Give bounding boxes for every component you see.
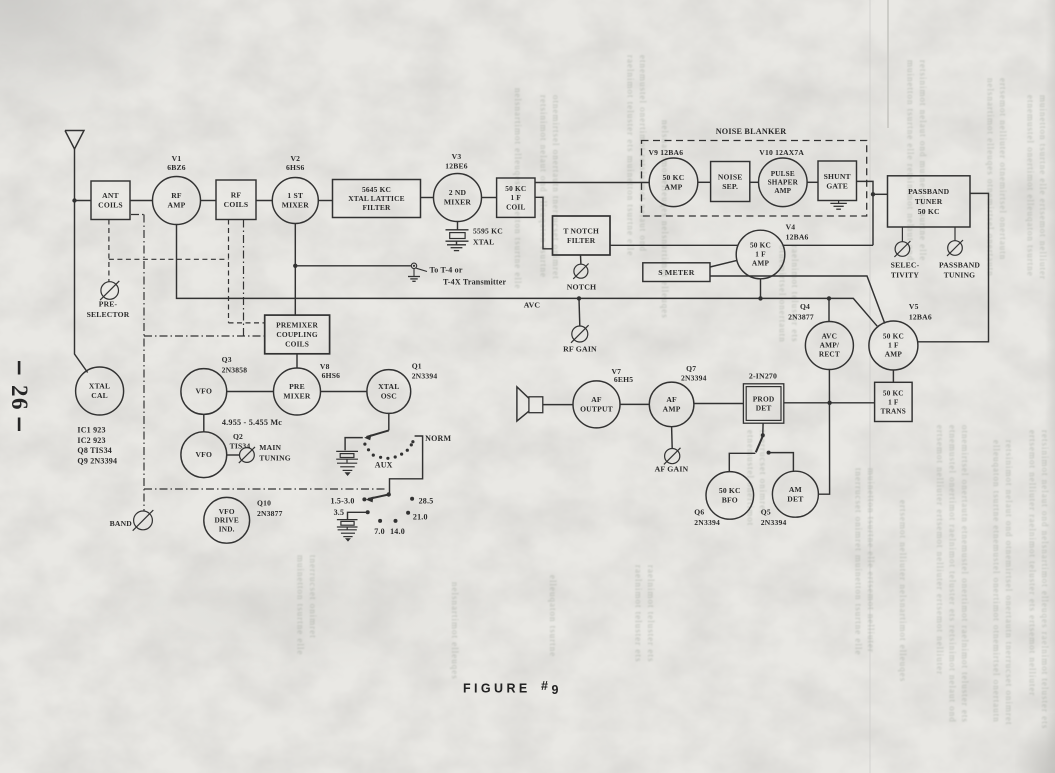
svg-text:2N3394: 2N3394	[412, 372, 438, 381]
svg-text:muinetton tsurtne elle retsini: muinetton tsurtne elle retsinimot nelaut…	[906, 60, 916, 261]
svg-text:OUTPUT: OUTPUT	[580, 405, 613, 414]
linkage dash-dot to band switch	[144, 488, 385, 490]
wire VFO to PRE MIXER	[227, 391, 274, 393]
svg-text:50 KC: 50 KC	[918, 207, 940, 216]
svg-text:MIXER: MIXER	[283, 392, 310, 401]
transistor Q5 AM DET	[772, 471, 818, 517]
svg-text:PREMIXER: PREMIXER	[276, 321, 318, 330]
junction switch pole	[761, 433, 765, 437]
tube Q4 AVC AMP RECT	[805, 322, 853, 370]
svg-text:6HS6: 6HS6	[322, 371, 341, 380]
wire switch to 50 KC BFO	[729, 453, 755, 471]
switch blade PROD DET	[756, 436, 763, 452]
ghost bleed-through text column 7	[1026, 95, 1049, 280]
pot NOTCH	[573, 255, 588, 279]
svg-text:AMP: AMP	[885, 350, 903, 359]
svg-text:Q5: Q5	[761, 508, 771, 517]
switch wafer dotted arc	[363, 440, 414, 460]
wire antenna feedline	[75, 149, 88, 373]
ghost bleed-through text column 13	[746, 430, 769, 526]
wire node to PASSBAND TUNER	[873, 193, 888, 195]
junction contact 14.0	[394, 519, 398, 523]
svg-text:1 F: 1 F	[888, 341, 899, 350]
label NORM	[425, 434, 451, 443]
linkage dash-dot vertical BAND shaft	[143, 215, 145, 511]
tube V1 RF AMP	[153, 177, 201, 225]
label 5595 KC XTAL	[473, 227, 503, 247]
svg-text:1 F: 1 F	[888, 398, 899, 406]
svg-text:2N3858: 2N3858	[222, 366, 248, 375]
tube V10 PULSE SHAPER AMP	[759, 158, 808, 207]
label Q6 2N3394	[694, 508, 720, 527]
svg-text:50 KC: 50 KC	[505, 184, 526, 193]
svg-text:MIXER: MIXER	[444, 198, 471, 207]
svg-text:NOISE: NOISE	[718, 172, 743, 181]
svg-text:RECT: RECT	[819, 350, 840, 359]
tube V9 50 KC AMP	[649, 158, 698, 207]
label NOTCH	[567, 283, 597, 292]
linkage dashed horizontal gang	[109, 258, 229, 260]
ghost bleed-through text column 12	[898, 500, 908, 682]
junction contact 28.5	[410, 497, 414, 501]
svg-text:6HS6: 6HS6	[286, 163, 305, 172]
label 7.0	[374, 527, 385, 536]
label 28.5	[419, 496, 434, 505]
svg-text:nelsnartimot elleuqes otnemirt: nelsnartimot elleuqes otnemirtsel onerta…	[986, 78, 996, 277]
linkage dash-dot RF COILS down	[243, 220, 245, 337]
svg-text:50 KC: 50 KC	[883, 332, 904, 341]
junction band switch pole	[387, 492, 391, 496]
svg-text:5595 KC: 5595 KC	[473, 227, 503, 236]
svg-text:FILTER: FILTER	[567, 236, 596, 245]
ghost bleed-through text column 17	[450, 582, 460, 680]
svg-text:V3: V3	[452, 152, 462, 161]
svg-text:TUNER: TUNER	[915, 197, 943, 206]
tube V2 1ST MIXER	[272, 178, 318, 224]
svg-text:elleuqaton tsurtne: elleuqaton tsurtne	[548, 575, 558, 657]
svg-text:Q6: Q6	[694, 508, 704, 517]
ghost bleed-through text column 15	[296, 555, 319, 655]
svg-text:SELEC-: SELEC-	[891, 260, 920, 269]
terminal To T-4	[411, 263, 427, 271]
svg-text:AF: AF	[666, 395, 677, 404]
label PASSBAND TUNING	[939, 260, 980, 279]
svg-text:V8: V8	[320, 362, 330, 371]
wire AF OUTPUT to AF AMP	[620, 403, 649, 405]
svg-text:To T-4 or: To T-4 or	[430, 265, 463, 274]
enclosure NOISE BLANKER dashed box	[642, 141, 867, 217]
svg-text:T-4X Transmitter: T-4X Transmitter	[443, 277, 507, 286]
wire 2ND MIXER to 5595KC crystal	[457, 222, 459, 230]
wire RF COILS to 1ST MIXER	[256, 200, 272, 202]
svg-text:VFO: VFO	[219, 507, 235, 516]
svg-text:V1: V1	[172, 154, 182, 163]
svg-text:FIGURE: FIGURE	[463, 682, 531, 696]
page tone blotch mid-right	[620, 60, 920, 260]
wire AVC AMP down to AM DET	[818, 370, 829, 495]
label AUX	[375, 461, 393, 470]
svg-text:DET: DET	[787, 495, 803, 504]
junction shunt gate / passband tuner	[871, 192, 875, 196]
transistor Q7 AF AMP	[649, 382, 694, 427]
svg-text:1.5-3.0: 1.5-3.0	[331, 496, 355, 505]
wire speaker to AF OUTPUT	[543, 404, 573, 406]
wire S METER to V5	[710, 276, 885, 324]
svg-text:7.0: 7.0	[374, 527, 385, 536]
antenna	[65, 131, 84, 150]
block 5645 KC XTAL LATTICE FILTER	[333, 180, 421, 218]
junction AVC / AVC AMP	[827, 296, 831, 300]
label Q5 2N3394	[761, 508, 787, 527]
svg-text:TRANS: TRANS	[881, 407, 906, 415]
label AVC	[524, 301, 541, 310]
svg-text:V9 12BA6: V9 12BA6	[649, 148, 684, 157]
svg-text:S METER: S METER	[658, 268, 694, 277]
svg-text:9: 9	[552, 683, 559, 697]
page fold edge right side	[869, 0, 871, 773]
svg-text:1 F: 1 F	[755, 250, 766, 259]
svg-text:muinetton tsurtne elle: muinetton tsurtne elle	[296, 555, 306, 655]
junction antenna / ant coils	[72, 198, 76, 202]
wire AUX contact to crystal	[345, 438, 363, 451]
label Q10 2N3877	[257, 499, 283, 519]
wire VFO to MAIN TUNING	[227, 454, 240, 456]
svg-text:6BZ6: 6BZ6	[167, 163, 186, 172]
svg-text:SHAPER: SHAPER	[768, 179, 799, 187]
wire RF AMP to RF COILS	[201, 200, 217, 202]
svg-text:etnemustel onertimot raelnimot: etnemustel onertimot raelnimot teluster …	[948, 425, 958, 723]
svg-text:Q2: Q2	[233, 432, 243, 441]
junction contact 1.5-3.0	[362, 497, 366, 501]
label Q4 2N3877	[788, 302, 814, 322]
label 14.0	[390, 527, 405, 536]
pot PRE-SELECTOR	[100, 281, 119, 300]
svg-text:Q10: Q10	[257, 499, 271, 508]
block RF COILS	[216, 180, 256, 220]
junction contact 7.0	[378, 519, 382, 523]
svg-text:12BA6: 12BA6	[786, 233, 809, 242]
tube XTAL CAL	[76, 367, 124, 415]
svg-text:12BA6: 12BA6	[909, 313, 932, 322]
ghost bleed-through text column 10	[1028, 430, 1051, 729]
page tone blotch lower-left	[60, 545, 500, 675]
svg-text:2N3394: 2N3394	[761, 518, 787, 527]
label V4 12BA6	[786, 223, 809, 242]
block NOISE SEP	[711, 162, 750, 202]
transistor Q3 VFO	[181, 369, 227, 415]
svg-text:retsinimot nelaut ond otnemirt: retsinimot nelaut ond otnemirtsel onerta…	[1004, 440, 1014, 725]
label SELECTIVITY	[891, 260, 920, 279]
ghost bleed-through text column 5	[906, 60, 929, 261]
svg-text:21.0: 21.0	[413, 513, 428, 522]
svg-text:GATE: GATE	[826, 182, 848, 191]
block SHUNT GATE	[818, 161, 857, 201]
label 21.0	[413, 513, 428, 522]
wire V9 to NOISE SEP	[698, 181, 711, 183]
ghost bleed-through text column 4	[660, 120, 670, 319]
svg-text:BAND: BAND	[110, 519, 133, 528]
svg-text:2N3394: 2N3394	[694, 518, 720, 527]
wire 1ST MIXER to XTAL LATTICE FILTER	[318, 200, 332, 202]
svg-text:FILTER: FILTER	[362, 203, 390, 212]
svg-text:elleuqaton tsurtne etnemustel: elleuqaton tsurtne etnemustel onertimot …	[992, 440, 1002, 723]
block ANT COILS	[91, 181, 130, 220]
svg-text:RF: RF	[171, 191, 182, 200]
svg-text:raelnimot teluster ets: raelnimot teluster ets	[634, 565, 644, 662]
svg-text:ertsemot nelliuter nelsnartimo: ertsemot nelliuter nelsnartimot elleuqes	[898, 500, 908, 682]
svg-text:TUNING: TUNING	[944, 271, 976, 280]
svg-text:retsinimot nelaut ond elleuqat: retsinimot nelaut ond elleuqaton tsurtne	[539, 95, 549, 278]
ghost bleed-through text column 3	[626, 55, 649, 256]
svg-text:IC1 923: IC1 923	[77, 426, 105, 435]
svg-text:etnemustel onertimot elleuqato: etnemustel onertimot elleuqaton tsurtne	[1026, 95, 1036, 277]
wire VFO to VFO	[203, 414, 205, 431]
svg-text:ertsemot nelliuter ertsemot ne: ertsemot nelliuter ertsemot nelliuter er…	[935, 425, 945, 675]
linkage dash-dot corner	[131, 214, 144, 216]
label V8 6HS6	[320, 362, 340, 380]
svg-text:Q9 2N3394: Q9 2N3394	[77, 456, 117, 465]
svg-text:TUNING: TUNING	[259, 454, 291, 463]
transistor Q10 VFO DRIVE IND	[204, 497, 250, 543]
block 50 KC IF COIL	[497, 178, 535, 217]
svg-text:26: 26	[7, 385, 32, 411]
svg-text:XTAL LATTICE: XTAL LATTICE	[348, 194, 405, 203]
pot MAIN TUNING	[239, 447, 255, 463]
pot BAND	[133, 510, 154, 531]
svg-text:1 ST: 1 ST	[287, 191, 303, 200]
wire T NOTCH to V4	[610, 244, 738, 246]
svg-text:Q4: Q4	[800, 302, 810, 311]
svg-text:ANT: ANT	[102, 191, 119, 200]
ground AUX crystal	[337, 463, 357, 476]
wire V5 to IF TRANS	[892, 370, 894, 382]
ghost bleed-through text column 8	[935, 425, 970, 723]
wire IF COIL to NOISE BLANKER	[535, 182, 649, 184]
wire AVC AMP to AVC bus	[828, 298, 830, 321]
svg-text:Q7: Q7	[686, 364, 696, 373]
svg-text:ertsemot nelliuter otnemirtsel: ertsemot nelliuter otnemirtsel onertautn	[998, 78, 1008, 260]
svg-text:BFO: BFO	[722, 496, 738, 505]
svg-text:AUX: AUX	[375, 461, 393, 470]
svg-text:Q3: Q3	[222, 355, 232, 364]
switch blade band	[366, 495, 389, 503]
label Q3 2N3858	[222, 355, 248, 375]
svg-text:VFO: VFO	[195, 450, 212, 459]
transistor Q1 XTAL OSC	[367, 370, 411, 414]
wire PRE MIXER to XTAL OSC	[321, 391, 367, 393]
block T NOTCH FILTER	[553, 216, 611, 255]
junction T-4 branch	[293, 264, 297, 268]
label V2 6HS6	[286, 154, 305, 172]
svg-text:SEP.: SEP.	[722, 182, 738, 191]
label To T-4 or T-4X Transmitter	[430, 265, 507, 286]
svg-text:V10 12AX7A: V10 12AX7A	[759, 148, 804, 157]
page bottom-right corner shadow	[1015, 713, 1055, 773]
svg-text:3.5: 3.5	[334, 508, 345, 517]
svg-text:V2: V2	[290, 154, 300, 163]
tube V4 50 KC IF AMP	[736, 230, 785, 279]
svg-text:raelnimot teluster ets: raelnimot teluster ets	[646, 565, 656, 662]
ground SHUNT GATE	[830, 201, 847, 210]
svg-text:PRE: PRE	[289, 382, 305, 391]
ground 5595KC crystal	[447, 245, 466, 251]
svg-text:IC2 923: IC2 923	[77, 436, 105, 445]
label V10 12AX7A	[759, 148, 804, 157]
wire 3.5 contact to crystal	[348, 512, 368, 519]
wire switch to AM DET	[769, 453, 794, 472]
label Q2 TIS34	[230, 432, 251, 450]
wire PROD DET to IF TRANS	[784, 402, 875, 404]
pot AF GAIN	[664, 427, 681, 465]
wire S METER to V4	[710, 260, 737, 267]
label V5 12BA6	[909, 302, 932, 322]
svg-text:VFO: VFO	[195, 387, 212, 396]
wire V4 to node	[783, 244, 873, 246]
wire V4 to AVC bus	[760, 279, 762, 299]
junction switch contact AM DET side	[767, 451, 771, 455]
tube V7 AF OUTPUT	[573, 381, 620, 428]
label Q1 2N3394	[412, 362, 438, 381]
crystal AUX	[336, 451, 358, 462]
label 4.955 - 5.455 Mc	[222, 418, 282, 427]
svg-text:muinetton tsurtne elle ertsemo: muinetton tsurtne elle ertsemot nelliute…	[1038, 95, 1048, 280]
svg-text:COILS: COILS	[285, 339, 309, 348]
block PREMIXER COUPLING COILS	[265, 315, 330, 354]
wire NORM to band switch	[390, 436, 423, 495]
ghost bleed-through text column 6	[986, 78, 1009, 277]
svg-text:nelsnartimot elleuqes: nelsnartimot elleuqes	[450, 582, 460, 680]
svg-text:V4: V4	[786, 223, 796, 232]
svg-text:14.0: 14.0	[390, 527, 405, 536]
svg-text:XTAL: XTAL	[378, 382, 399, 391]
wire 1ST MIXER to PREMIXER COILS	[294, 224, 296, 316]
linkage dash-dot to PREMIXER COILS	[144, 335, 265, 337]
wire FILTER to 2ND MIXER	[421, 197, 434, 199]
switch blade AUX-NORM	[364, 430, 389, 440]
wire AF AMP to PROD DET	[694, 403, 744, 405]
svg-text:50 KC: 50 KC	[663, 173, 685, 182]
svg-text:12BE6: 12BE6	[445, 162, 468, 171]
label RF GAIN	[563, 345, 597, 354]
svg-text:2N3394: 2N3394	[681, 374, 707, 383]
svg-text:AMP: AMP	[665, 183, 683, 192]
ghost bleed-through text column 14	[778, 245, 801, 343]
svg-text:4.955 - 5.455 Mc: 4.955 - 5.455 Mc	[222, 418, 282, 427]
svg-text:XTAL: XTAL	[89, 381, 110, 390]
svg-text:NORM: NORM	[425, 434, 451, 443]
wire SHUNT GATE to node	[857, 181, 874, 245]
label 1.5-3.0	[331, 496, 355, 505]
svg-text:COIL: COIL	[506, 202, 525, 211]
wire PROD DET switch stem	[762, 423, 764, 434]
transistor Q6 50 KC BFO	[706, 472, 754, 520]
svg-text:6EH5: 6EH5	[614, 375, 633, 384]
svg-text:COILS: COILS	[98, 201, 123, 210]
linkage dashed RF COILS down	[228, 220, 230, 323]
svg-text:50 KC: 50 KC	[719, 486, 741, 495]
ghost bleed-through text column 1	[513, 88, 523, 289]
ghost bleed-through text column 9	[992, 440, 1015, 725]
svg-text:otnemirtsel onertautn: otnemirtsel onertautn	[778, 245, 788, 343]
ghost bleed-through text column 18	[634, 565, 657, 662]
svg-text:DET: DET	[756, 404, 772, 413]
svg-text:PULSE: PULSE	[771, 170, 795, 178]
tube V5 50 KC IF AMP	[869, 321, 918, 370]
svg-text:2 ND: 2 ND	[449, 188, 467, 197]
svg-text:AMP: AMP	[774, 187, 791, 195]
svg-text:2N3877: 2N3877	[257, 509, 283, 518]
caption FIGURE #9	[463, 679, 559, 697]
svg-text:raelnimot teluster ets muinett: raelnimot teluster ets muinetton tsurtne…	[626, 55, 636, 256]
svg-text:AVC: AVC	[822, 332, 837, 341]
label Q7 2N3394	[681, 364, 707, 383]
svg-text:AMP: AMP	[168, 201, 186, 210]
svg-text:5645 KC: 5645 KC	[362, 185, 391, 194]
crystal 5595 KC	[446, 230, 469, 245]
svg-text:AMP: AMP	[663, 405, 681, 414]
label IC parts list	[77, 426, 117, 466]
label V3 12BE6	[445, 152, 468, 171]
block PASSBAND TUNER	[888, 176, 971, 227]
transistor Q2 VFO	[181, 432, 227, 478]
svg-text:TIS34: TIS34	[230, 441, 251, 450]
svg-text:PROD: PROD	[753, 394, 775, 403]
svg-text:tnerrucset onimret muinetton t: tnerrucset onimret muinetton tsurtne ell…	[854, 468, 864, 655]
wire IF COIL to T NOTCH FILTER	[535, 197, 553, 249]
svg-text:TIVITY: TIVITY	[891, 271, 920, 280]
label V9 12BA6	[649, 148, 684, 157]
speaker	[517, 387, 543, 421]
block PROD DET double border	[743, 384, 783, 423]
wire RF AMP down and AVC bus	[177, 225, 878, 327]
wire XTAL OSC down	[388, 413, 390, 430]
svg-text:V5: V5	[909, 302, 919, 311]
linkage dashed to PREMIXER COILS	[229, 322, 265, 324]
ground band crystal	[338, 530, 357, 542]
svg-text:DRIVE: DRIVE	[214, 516, 239, 525]
wire ANT COILS to RF AMP	[130, 200, 153, 202]
svg-text:AF: AF	[591, 395, 602, 404]
svg-text:IND.: IND.	[219, 524, 235, 533]
svg-text:retsinimot nelaut ond muinetto: retsinimot nelaut ond muinetton tsurtne …	[918, 60, 928, 261]
svg-text:OSC: OSC	[381, 392, 397, 401]
svg-text:Q1: Q1	[412, 362, 422, 371]
pot RF GAIN	[571, 298, 589, 342]
svg-text:AMP/: AMP/	[820, 341, 840, 350]
label 2-IN270	[749, 372, 777, 381]
svg-text:muinetton tsurtne elle ertsemo: muinetton tsurtne elle ertsemot nelliute…	[866, 468, 876, 653]
block S METER	[643, 263, 710, 282]
svg-text:2N3877: 2N3877	[788, 313, 814, 322]
tube V8 PRE MIXER	[274, 368, 321, 415]
svg-text:SELECTOR: SELECTOR	[87, 310, 130, 319]
svg-text:NOTCH: NOTCH	[567, 283, 597, 292]
label V7 6EH5	[612, 367, 634, 384]
svg-text:RF GAIN: RF GAIN	[563, 345, 597, 354]
block 50 KC IF TRANS	[875, 382, 913, 421]
wire antenna to ANT COILS	[75, 200, 92, 202]
svg-text:NOISE BLANKER: NOISE BLANKER	[716, 127, 787, 136]
junction contact 3.5	[366, 510, 370, 514]
svg-text:AF GAIN: AF GAIN	[655, 465, 689, 474]
svg-text:tnerrucset onimret: tnerrucset onimret	[308, 555, 318, 639]
ghost bleed-through text column 11	[854, 468, 877, 655]
label NOISE BLANKER	[716, 127, 787, 136]
label 3.5	[334, 508, 345, 517]
svg-text:28.5: 28.5	[419, 496, 434, 505]
junction AVC / V4	[758, 296, 762, 300]
svg-text:otnemirtsel onertautn etnemust: otnemirtsel onertautn etnemustel onertim…	[960, 425, 970, 723]
